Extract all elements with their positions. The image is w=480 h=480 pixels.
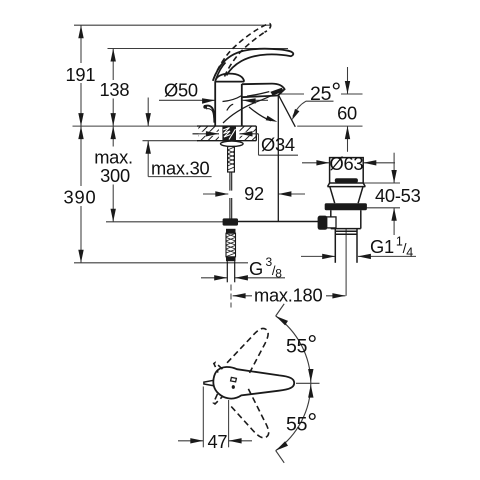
svg-text:138: 138 (100, 79, 130, 100)
svg-text:300: 300 (100, 165, 130, 186)
svg-text:55°: 55° (286, 409, 317, 437)
svg-text:191: 191 (66, 64, 96, 85)
svg-text:60: 60 (337, 103, 357, 124)
svg-text:max.180: max.180 (254, 285, 322, 306)
svg-text:92: 92 (244, 183, 264, 204)
svg-text:55°: 55° (286, 331, 317, 359)
svg-text:max.30: max.30 (151, 157, 210, 178)
svg-text:390: 390 (64, 186, 97, 207)
svg-text:Ø50: Ø50 (164, 80, 198, 101)
svg-text:40-53: 40-53 (375, 185, 421, 206)
svg-text:47: 47 (207, 431, 227, 452)
svg-text:Ø63: Ø63 (329, 153, 363, 174)
svg-text:Ø34: Ø34 (261, 134, 295, 155)
